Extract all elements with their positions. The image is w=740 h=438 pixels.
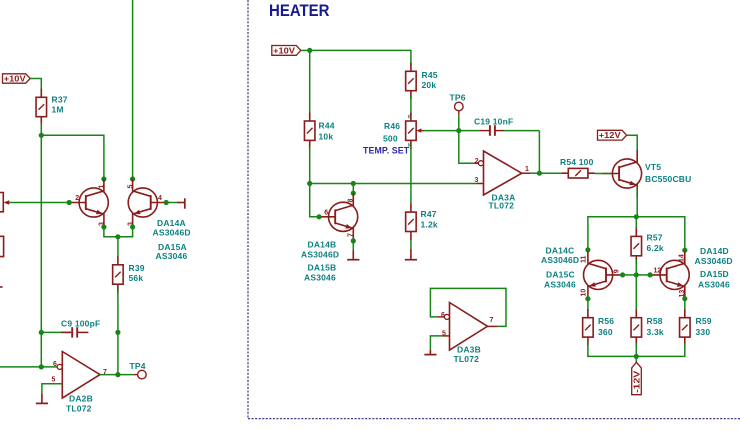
wire DA14B emitter to ground — [352, 241, 354, 251]
svg-text:DA2B: DA2B — [69, 394, 93, 404]
transistor DA14A — [69, 179, 108, 226]
svg-text:6.2k: 6.2k — [647, 243, 664, 253]
svg-text:5: 5 — [127, 185, 134, 189]
resistor R47 — [406, 204, 417, 240]
power flag +12V — [598, 130, 627, 140]
junction at R37 bottom — [39, 133, 44, 138]
resistor R44 — [304, 113, 315, 149]
svg-text:TL072: TL072 — [454, 354, 480, 364]
pin 6 label DA3B — [441, 312, 445, 319]
svg-text:DA14D: DA14D — [700, 246, 729, 256]
wire top vertical to DA15A collector — [132, 0, 134, 179]
svg-text:1: 1 — [99, 185, 106, 189]
svg-text:R45: R45 — [422, 70, 438, 80]
wire DA15A base to terminal — [166, 202, 184, 204]
resistor R37 — [36, 89, 47, 125]
component stub (cut off) left — [0, 286, 3, 288]
svg-text:6: 6 — [441, 312, 445, 319]
resistor R57 — [631, 228, 642, 264]
svg-text:DA15D: DA15D — [700, 269, 729, 279]
junction pin6 rail — [39, 364, 44, 369]
svg-text:8: 8 — [348, 199, 355, 203]
junction DA14D base — [648, 272, 653, 277]
pin mark R46 bottom — [408, 143, 410, 146]
testpoint TP4 — [138, 370, 147, 379]
svg-text:AS3046D: AS3046D — [301, 250, 339, 260]
transistor VT5 — [596, 150, 642, 197]
svg-text:12: 12 — [654, 268, 662, 275]
pin 7 label DA2B — [103, 369, 107, 376]
ground DA14B — [347, 251, 359, 260]
label TP4 — [130, 361, 146, 371]
pin mark R46 top — [408, 115, 410, 118]
potentiometer R46 — [406, 113, 424, 149]
label C19 10nF — [474, 117, 513, 127]
label DA14C AS3046D — [541, 246, 579, 266]
title HEATER — [269, 1, 330, 20]
pin 1 label DA14A collector — [99, 185, 106, 189]
svg-text:14: 14 — [679, 254, 686, 262]
wire R58 to rail — [635, 343, 637, 356]
svg-text:10k: 10k — [319, 132, 334, 142]
svg-text:HEATER: HEATER — [269, 1, 330, 20]
junction R44 bottom — [307, 181, 312, 186]
wire R45 to R46 — [410, 96, 412, 115]
label DA14D AS3046D — [695, 246, 733, 266]
svg-text:VT5: VT5 — [645, 162, 661, 172]
wire top rail — [588, 217, 685, 248]
wire node to DA14D base — [636, 274, 650, 276]
pin 1 label DA3A — [525, 166, 529, 173]
svg-text:R47: R47 — [421, 209, 437, 219]
junction DA14C emitter — [585, 296, 590, 301]
svg-text:+10V: +10V — [273, 45, 295, 55]
wire +10V to R45 — [310, 50, 411, 66]
svg-text:56k: 56k — [129, 273, 144, 283]
svg-text:R44: R44 — [319, 121, 335, 131]
svg-text:AS3046: AS3046 — [304, 273, 336, 283]
label R57 6.2k — [647, 233, 664, 254]
wire bottom rail — [588, 343, 685, 356]
wire output to R54 — [539, 172, 561, 174]
junction output DA2B — [115, 372, 120, 377]
pin 5 label DA15A collector — [127, 185, 134, 189]
label DA15D AS3046 — [698, 269, 730, 289]
power flag -12V — [632, 362, 642, 394]
wire rail to -12V — [635, 356, 637, 362]
svg-text:4: 4 — [158, 195, 162, 202]
junction DA15A base — [164, 200, 169, 205]
svg-text:360: 360 — [598, 327, 613, 337]
label DA3B TL072 — [454, 345, 481, 365]
wire pin 5 DA2B to ground — [42, 384, 62, 394]
power flag +10V (left) — [3, 73, 31, 83]
capacitor C19 — [459, 125, 540, 136]
label TEMP. SET — [363, 146, 410, 156]
svg-text:10: 10 — [581, 289, 588, 297]
pin 5 label DA2B — [52, 376, 56, 383]
pin 4 label DA15A base — [158, 195, 162, 202]
label DA15A AS3046 — [156, 242, 188, 261]
wire R46 bottom to R47 — [410, 146, 412, 204]
junction DA14B emitter — [351, 238, 356, 243]
pin 8 label DA14B collector — [348, 199, 355, 203]
junction DA14C collector — [585, 247, 590, 252]
svg-text:330: 330 — [696, 327, 711, 337]
label R54 100 — [560, 157, 594, 167]
wire +10V down to R44 — [309, 50, 311, 115]
svg-text:2: 2 — [75, 195, 79, 202]
wire R47 to ground — [410, 240, 412, 249]
label R39 56k — [129, 263, 145, 283]
svg-text:AS3046D: AS3046D — [695, 256, 733, 266]
label R47 1.2k — [421, 209, 438, 230]
svg-text:7: 7 — [348, 233, 355, 237]
pin 3 label DA15A emitter — [127, 222, 134, 226]
pin 7 label DA3B — [490, 317, 494, 324]
svg-text:TL072: TL072 — [489, 201, 515, 211]
label R44 10k — [319, 121, 335, 142]
wire VT5 emitter to rail — [636, 187, 638, 217]
wire +10V to R37 — [30, 79, 41, 93]
ground DA3B pin5 — [424, 350, 436, 355]
svg-text:R56: R56 — [598, 316, 614, 326]
svg-text:AS3046D: AS3046D — [541, 255, 579, 265]
transistor DA14C mirrored — [584, 251, 623, 298]
label DA14B AS3046D — [301, 240, 339, 260]
svg-text:500: 500 — [383, 134, 398, 144]
wire R44 to rail — [309, 146, 311, 184]
wire pin 6 DA2B — [0, 366, 57, 368]
testpoint TP6 — [455, 102, 464, 111]
capacitor C9 — [61, 327, 88, 337]
junction DA14A base — [67, 200, 72, 205]
wire R57 to base rail — [635, 260, 637, 275]
label R46 500 — [383, 121, 400, 144]
pin 10 label DA14C emitter — [581, 289, 588, 297]
junction DA15A emitter — [130, 224, 135, 229]
pin 6 label DA2B — [53, 361, 57, 368]
wire vertical left rail — [40, 135, 42, 367]
wire to TP4 — [118, 374, 138, 376]
junction wiper node — [456, 128, 461, 133]
label DA15C AS3046 — [544, 270, 576, 290]
svg-text:AS3046: AS3046 — [544, 279, 576, 289]
wire +12V to VT5 collector — [627, 135, 638, 150]
junction DA15A collector — [130, 176, 135, 181]
svg-text:TL072: TL072 — [66, 404, 92, 414]
junction center base node — [634, 272, 639, 277]
wire rail to R57 — [635, 217, 637, 230]
pin 3 label DA3A — [475, 177, 479, 184]
svg-text:+12V: +12V — [599, 130, 621, 140]
svg-text:R54 100: R54 100 — [560, 157, 594, 167]
op-amp DA3B — [444, 303, 487, 351]
pin 12 label DA14D base — [654, 268, 662, 275]
label DA3A TL072 — [489, 193, 516, 211]
svg-text:1: 1 — [525, 166, 529, 173]
ground R47 — [405, 249, 417, 260]
svg-text:R37: R37 — [52, 95, 68, 105]
wire DA14D emitter to R59 — [684, 299, 686, 311]
transistor DA14D — [650, 251, 689, 298]
svg-text:7: 7 — [490, 317, 494, 324]
svg-text:R58: R58 — [647, 316, 663, 326]
op-amp DA3A — [478, 151, 521, 195]
wire collector stub — [352, 184, 354, 194]
pin 14 label DA14D collector — [679, 254, 686, 262]
wire C19 to output — [538, 131, 540, 174]
svg-text:R39: R39 — [129, 263, 145, 273]
wire C9 left rail — [41, 331, 71, 333]
junction emitters — [115, 234, 120, 239]
wire R39 to output node — [117, 290, 119, 375]
svg-text:3.3k: 3.3k — [647, 327, 664, 337]
wire node to pin2 DA3A — [459, 131, 479, 164]
pin 7 label DA14B emitter — [348, 233, 355, 237]
svg-text:2: 2 — [475, 158, 479, 165]
svg-text:AS3046: AS3046 — [156, 251, 188, 261]
junction +10V node — [307, 48, 312, 53]
transistor DA15A mirrored — [128, 179, 167, 226]
svg-text:11: 11 — [581, 255, 588, 263]
pin 13 label DA14D emitter — [679, 290, 686, 298]
resistor R58 — [631, 309, 642, 345]
dashed section border — [248, 0, 740, 419]
resistor R54 — [561, 168, 595, 178]
junction DA14B base — [317, 214, 322, 219]
wire pin 5 DA3B to ground — [430, 336, 449, 350]
power flag +10V (heater) — [272, 45, 301, 55]
potentiometer (cut off) with wiper arrow — [0, 193, 9, 212]
pin 5 label DA3B — [442, 330, 446, 337]
junction VT5 emitter rail — [634, 214, 639, 219]
resistor R39 — [113, 256, 124, 292]
svg-text:20k: 20k — [422, 80, 437, 90]
wire base node to R58 — [635, 275, 637, 311]
svg-text:BC550CBU: BC550CBU — [645, 174, 691, 184]
label DA14A AS3046D — [153, 218, 191, 238]
label R45 20k — [422, 70, 438, 90]
wire DA14C base to node — [623, 274, 637, 276]
label DA15B AS3046 — [304, 263, 336, 283]
wire DA3A output — [522, 172, 540, 174]
wire emitters join — [104, 227, 133, 237]
ground DA2B pin5 — [36, 394, 48, 403]
svg-text:-12V: -12V — [633, 370, 642, 393]
svg-text:R57: R57 — [647, 233, 663, 243]
junction C9 left rail — [39, 330, 44, 335]
resistor R45 — [406, 63, 417, 99]
junction DA14B collector rail — [351, 181, 356, 186]
wire R54 to VT5 base — [595, 173, 596, 175]
terminal bar — [184, 198, 186, 208]
svg-text:TEMP. SET: TEMP. SET — [363, 146, 410, 156]
svg-text:DA3B: DA3B — [457, 345, 481, 355]
label R58 3.3k — [647, 316, 664, 337]
wire DA2B output — [100, 374, 118, 376]
svg-text:R59: R59 — [696, 316, 712, 326]
junction DA3A output — [537, 171, 542, 176]
svg-text:9: 9 — [613, 269, 620, 273]
label R59 330 — [696, 316, 712, 337]
label DA2B TL072 — [66, 394, 93, 414]
transistor DA14B — [319, 193, 358, 240]
pin 2 label DA14A base — [75, 195, 79, 202]
svg-text:DA15B: DA15B — [308, 263, 337, 273]
component edge (cut off) left — [0, 236, 4, 256]
label C9 100pF — [61, 319, 100, 329]
svg-text:C19 10nF: C19 10nF — [474, 117, 513, 127]
svg-text:5: 5 — [52, 376, 56, 383]
svg-text:R46: R46 — [384, 121, 400, 131]
junction bottom rail — [634, 354, 639, 359]
wire DA3B feedback — [430, 288, 506, 326]
pin 2 label DA3A — [475, 158, 479, 165]
svg-text:AS3046: AS3046 — [698, 279, 730, 289]
resistor R59 — [680, 309, 691, 345]
svg-text:1.2k: 1.2k — [421, 220, 438, 230]
svg-text:DA15C: DA15C — [546, 270, 575, 280]
wire +10V heater — [301, 49, 310, 51]
pin 3 label DA14A emitter — [99, 222, 106, 226]
pin 6 label DA14B base — [324, 210, 328, 217]
svg-text:DA14A: DA14A — [157, 218, 186, 228]
label TP6 — [450, 93, 466, 103]
pin 9 label DA14C base — [613, 269, 620, 273]
wire DA14C emitter to R56 — [587, 299, 589, 311]
label R56 360 — [598, 316, 614, 337]
junction DA14A emitter — [101, 224, 106, 229]
svg-text:TP4: TP4 — [130, 361, 146, 371]
wire rail to DA14B base — [310, 184, 319, 217]
svg-text:C9 100pF: C9 100pF — [61, 319, 100, 329]
svg-text:3: 3 — [475, 177, 479, 184]
svg-text:DA14C: DA14C — [546, 246, 575, 256]
svg-text:1M: 1M — [52, 105, 64, 115]
junction DA14A collector — [101, 176, 106, 181]
wire rail to pin3 DA3A — [310, 183, 484, 185]
wire node to DA14A collector — [41, 135, 104, 179]
svg-text:6: 6 — [53, 361, 57, 368]
svg-text:6: 6 — [324, 210, 328, 217]
junction DA14D emitter — [682, 296, 687, 301]
svg-text:DA14B: DA14B — [308, 240, 337, 250]
label R37 1M — [52, 95, 68, 115]
resistor R56 — [583, 309, 594, 345]
wire pot wiper to DA14A base — [10, 202, 70, 204]
svg-text:AS3046D: AS3046D — [153, 227, 191, 237]
wire to R39 — [117, 237, 119, 258]
junction DA14B collector pin — [351, 191, 356, 196]
junction DA14D collector — [682, 248, 687, 253]
wire R46 wiper to node — [424, 130, 459, 132]
wire TP6 to node — [458, 111, 460, 131]
svg-text:TP6: TP6 — [450, 93, 466, 103]
junction DA14C base — [620, 272, 625, 277]
op-amp DA2B — [57, 352, 100, 399]
junction C9 right — [115, 330, 120, 335]
svg-text:+10V: +10V — [4, 73, 26, 83]
wire R37 to node — [40, 123, 42, 135]
pin 11 label DA14C collector — [581, 255, 588, 263]
label VT5 BC550CBU — [645, 162, 691, 184]
